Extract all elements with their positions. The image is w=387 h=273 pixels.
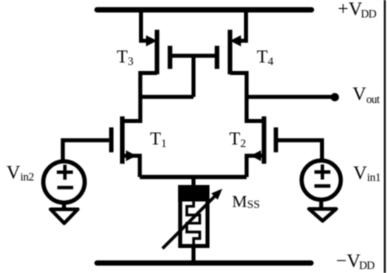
transistor T1 xyxy=(111,116,136,163)
node Vout terminal dot xyxy=(331,93,339,101)
memristor MSS xyxy=(178,185,209,246)
voltage source Vin2 xyxy=(43,161,84,202)
transistor T4 xyxy=(217,30,241,75)
wire: T2 source to tail node xyxy=(247,156,263,177)
wire: diode connection to T3 drain xyxy=(140,95,193,99)
arrow: MSS tunability xyxy=(163,189,223,249)
wire: T2 gate to Vin1 xyxy=(278,140,322,162)
wire: tail node to MSS top xyxy=(192,177,196,189)
ground symbol (Vin1) xyxy=(309,199,336,221)
right border line xyxy=(384,0,386,273)
wire: +VDD rail to T4 source xyxy=(234,10,246,41)
wire: T1 source to tail node xyxy=(124,156,140,177)
wire: +VDD rail to T3 source xyxy=(141,10,153,41)
ground symbol (Vin2) xyxy=(51,202,78,223)
wire: T3 drain to T1 drain xyxy=(122,73,157,121)
wire: MSS bottom to -VDD rail xyxy=(192,246,196,263)
wire: gate tie T3-T4 xyxy=(170,54,217,58)
wire: common source rail xyxy=(140,175,247,179)
+VDD rail xyxy=(97,7,312,12)
wire: T4 drain to T2 drain xyxy=(230,73,264,121)
-VDD rail xyxy=(97,260,311,265)
wire: T1 gate to Vin2 xyxy=(63,140,109,162)
wire: gate tie drop to mirror node xyxy=(192,56,196,97)
transistor T3 xyxy=(146,30,170,75)
wire: output node to Vout terminal xyxy=(247,95,333,99)
voltage source Vin1 xyxy=(302,161,341,200)
transistor T2 xyxy=(251,116,276,163)
